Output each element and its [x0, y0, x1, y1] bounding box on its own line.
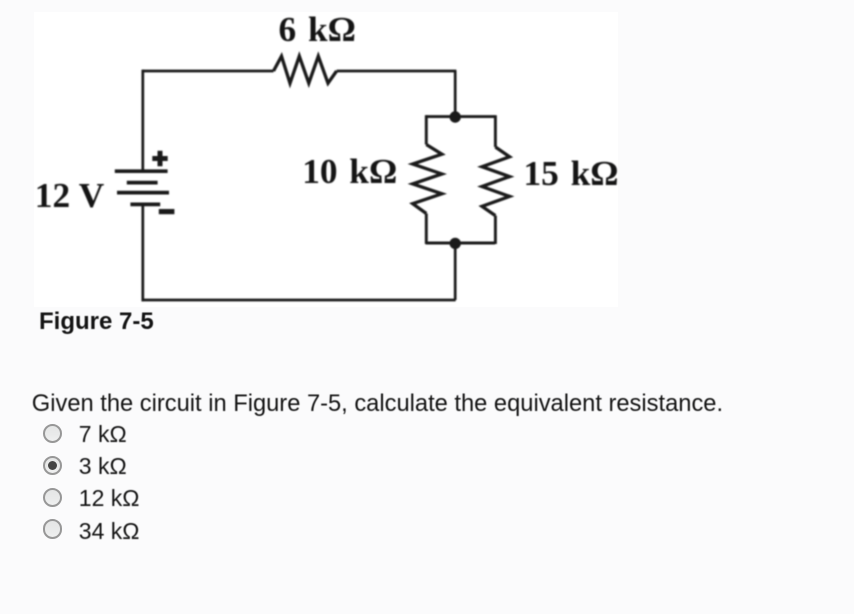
wire: top-left horizontal segment	[143, 70, 274, 73]
svg-text:10 kΩ: 10 kΩ	[302, 152, 397, 191]
radio option 4	[43, 519, 63, 539]
wire: right vertical upper (top corner to node A)	[454, 71, 457, 117]
battery plate short 2	[127, 181, 158, 185]
wire: 10k branch top lead	[425, 115, 428, 144]
wire: parallel section bottom bar	[426, 242, 495, 245]
node B (bottom junction dot)	[450, 238, 461, 249]
svg-text:6 kΩ: 6 kΩ	[279, 10, 356, 49]
resistor R1 6 kOhm (top, horizontal zigzag)	[274, 56, 337, 83]
battery plate long top	[115, 169, 168, 173]
radio option 3	[43, 488, 63, 508]
wire: 15k branch top lead	[494, 115, 497, 147]
svg-text:15 kΩ: 15 kΩ	[524, 154, 619, 193]
wire: left vertical upper (corner to battery + plate)	[141, 70, 144, 171]
wire: left vertical lower (battery - plate to bottom wire)	[141, 204, 144, 301]
caption Figure 7-5	[39, 310, 154, 334]
battery plate long 3	[117, 191, 169, 195]
resistor R2 10 kOhm (left vertical zigzag)	[413, 145, 442, 214]
battery plate short bottom	[130, 203, 160, 207]
resistor R3 15 kOhm (right vertical zigzag)	[482, 147, 510, 216]
wire: right vertical lower (node B to bottom wire)	[454, 243, 457, 300]
wire: bottom horizontal	[142, 299, 456, 302]
wire: 10k branch bottom lead	[425, 214, 428, 245]
battery plus polarity mark	[152, 151, 167, 166]
radio option 2 (selected)	[43, 456, 63, 476]
wire: 15k branch bottom lead	[494, 216, 497, 244]
question text	[32, 393, 723, 417]
node A (top junction dot)	[450, 111, 461, 122]
svg-text:12 V: 12 V	[35, 176, 105, 215]
wire: parallel section top bar	[426, 115, 495, 118]
battery B1 12 V	[115, 171, 169, 204]
figure image white background	[34, 12, 618, 307]
wire: top-right horizontal segment	[337, 70, 457, 73]
battery minus polarity mark	[159, 209, 175, 214]
radio option 1	[43, 424, 63, 444]
